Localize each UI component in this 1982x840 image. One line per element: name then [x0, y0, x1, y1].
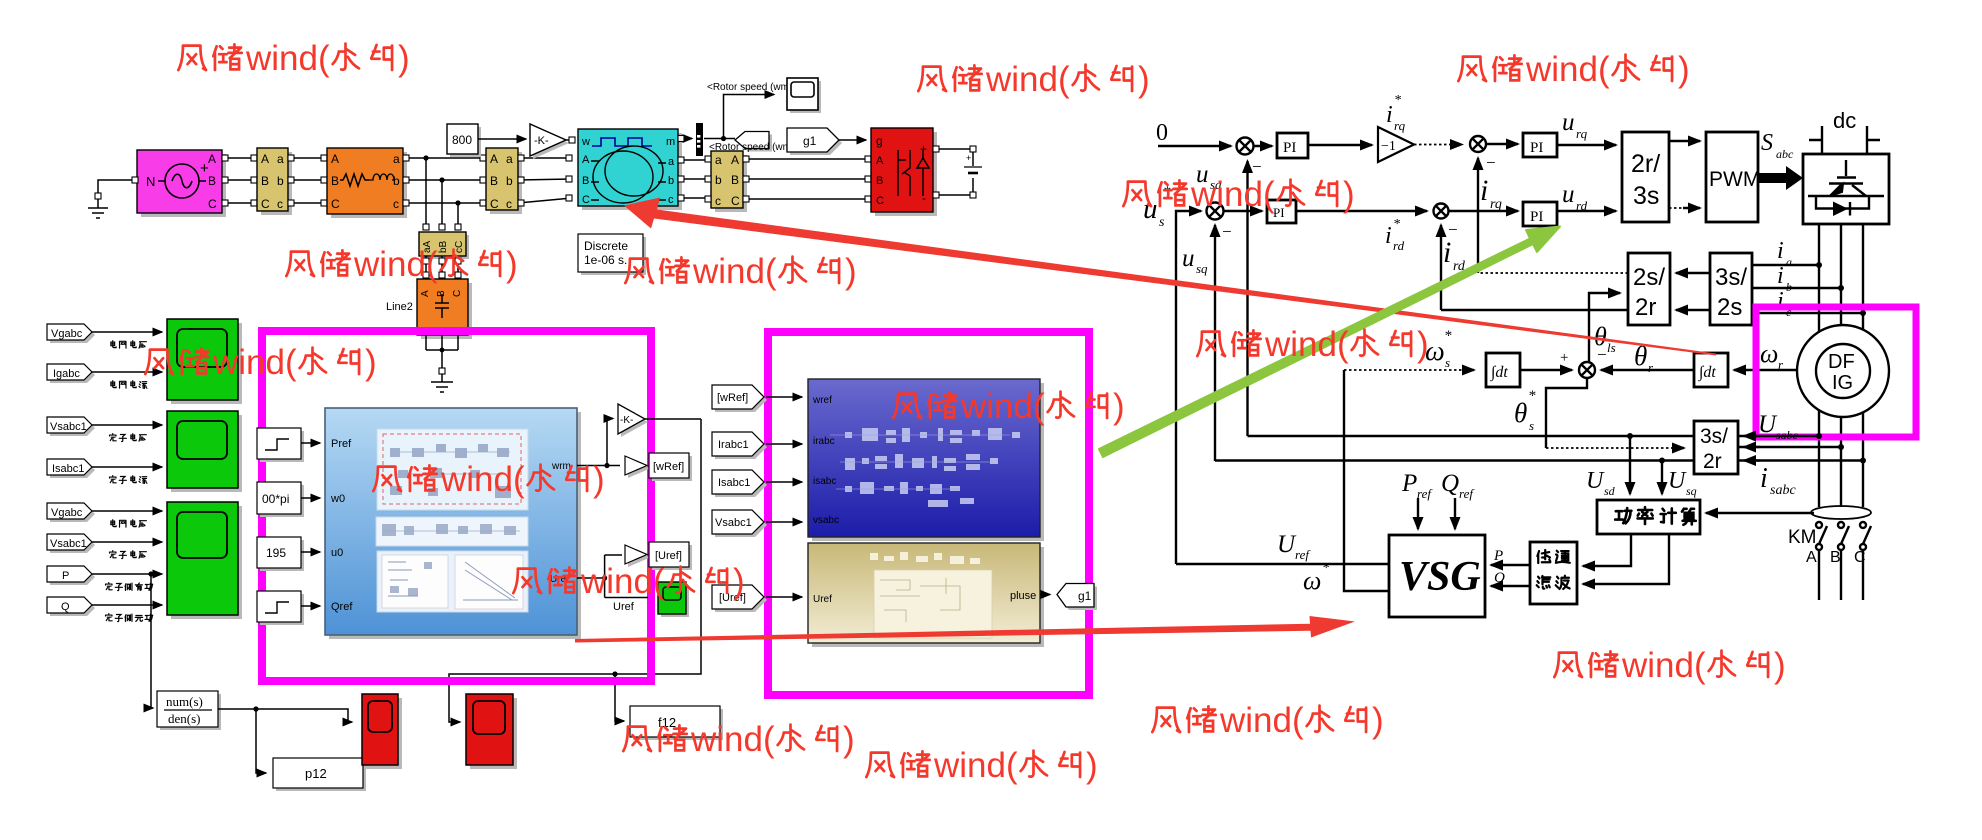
3s/2r block: [1694, 421, 1738, 474]
switch B: [1838, 522, 1844, 528]
svg-text:u0: u0: [331, 547, 343, 559]
svg-text:rq: rq: [1576, 126, 1588, 141]
three-phase VI measurement 2 (tan): [490, 152, 522, 214]
svg-text:b: b: [1786, 280, 1792, 294]
goto tag g1 out: [1060, 587, 1097, 611]
svg-text:+: +: [966, 153, 971, 163]
svg-text:s: s: [1445, 355, 1450, 370]
usq feedback line: [1215, 459, 1863, 461]
wire branch to p12: [256, 709, 266, 773]
wire sum1 to PI1: [1254, 145, 1273, 147]
wire bus selector out: [704, 138, 735, 140]
svg-text:DF: DF: [1828, 351, 1855, 373]
ground symbol G2: [431, 374, 453, 392]
constant 00*pi: [260, 485, 304, 517]
constant 195: [260, 540, 304, 571]
svg-text:wref: wref: [812, 395, 832, 406]
svg-text:B: B: [731, 173, 739, 187]
watermark 14: [866, 746, 1097, 785]
svg-text:A: A: [490, 152, 498, 166]
svg-text:b: b: [506, 174, 513, 188]
svg-text:u: u: [1562, 181, 1575, 208]
mini scope top: [790, 81, 821, 113]
subsystem preview image 2: [376, 517, 528, 546]
watermark 10: [893, 387, 1124, 426]
wires 2r3s to PWM: [1669, 140, 1700, 142]
svg-text:b: b: [715, 173, 722, 187]
PI controller 4: [1523, 202, 1557, 226]
2r/3s transform block: [1622, 132, 1669, 222]
from tag Isabc1: [715, 473, 767, 497]
svg-text:s: s: [1529, 418, 1534, 433]
DFIG magenta annotation box: [1756, 307, 1916, 437]
watermark 3: [1458, 50, 1689, 89]
svg-text:B: B: [876, 175, 883, 187]
subsystem preview image 3: [377, 551, 528, 612]
svg-text:800: 800: [452, 133, 472, 147]
three-phase VI measurement 1 (tan): [261, 152, 292, 215]
ird feedback: [1441, 309, 1628, 311]
summing junction sum1: [1237, 138, 1254, 155]
wire sum4 to PI4: [1449, 210, 1518, 212]
gain -K- top: [533, 127, 569, 159]
subsystem preview image 1: [377, 429, 528, 510]
svg-text:3s/: 3s/: [1700, 425, 1728, 448]
svg-text:∫dt: ∫dt: [1698, 364, 1716, 382]
dotted wire gain to sum2: [1414, 144, 1462, 146]
svg-text:u: u: [1562, 109, 1575, 136]
node taps to Line2: [423, 155, 428, 160]
svg-text:3s/: 3s/: [1715, 264, 1747, 291]
switch C: [1860, 522, 1866, 528]
step source Pref: [260, 431, 304, 462]
svg-text:B: B: [331, 174, 339, 188]
svg-text:2s/: 2s/: [1633, 264, 1665, 291]
wire g1 to converter: [839, 139, 866, 141]
scope1 green: [171, 323, 242, 404]
wire uref feedback to sum3: [1176, 211, 1201, 564]
wires Line2 to ground: [426, 335, 458, 368]
scope3 green: [171, 506, 242, 619]
wire up to gain2: [607, 419, 613, 466]
dotted wire omega* to int1: [1344, 369, 1472, 371]
watermark 12: [1554, 646, 1785, 685]
3s/2r arrows into right edge: [1744, 435, 1760, 437]
svg-text:A: A: [208, 152, 216, 166]
svg-text:Q: Q: [61, 601, 70, 613]
sum2 minus input irq: [1477, 158, 1479, 273]
svg-text:bB: bB: [438, 240, 449, 253]
svg-text:ref: ref: [1459, 486, 1475, 501]
svg-text:w: w: [581, 136, 590, 148]
svg-text:<Rotor speed (wm)>: <Rotor speed (wm)>: [707, 82, 798, 93]
svg-text:C: C: [331, 197, 340, 211]
switch lower rails: [1819, 550, 1863, 600]
from tag Isabc1: [50, 462, 95, 478]
svg-text:U: U: [1586, 468, 1605, 494]
PI controller 2: [1523, 133, 1557, 157]
dotted irq feedback: [1478, 272, 1628, 274]
label dingzice yougong: [106, 583, 153, 591]
svg-text:S: S: [1761, 130, 1773, 156]
svg-text:pluse: pluse: [1010, 590, 1036, 602]
svg-text:PI: PI: [1273, 205, 1285, 220]
wire sum2 to PI2: [1486, 143, 1518, 145]
wire gain2 down to bottom bus: [645, 418, 701, 420]
svg-text:ref: ref: [1417, 486, 1433, 501]
wire PI2 to 2r3s: [1557, 144, 1616, 146]
svg-text:irabc: irabc: [813, 436, 835, 447]
svg-text:Uref: Uref: [613, 601, 635, 613]
svg-text:N: N: [146, 174, 155, 189]
wire PI4 to 2r3s: [1557, 210, 1616, 212]
wire P to transfer fcn: [151, 574, 152, 708]
bus selector: [678, 138, 692, 140]
svg-text:195: 195: [266, 546, 286, 560]
svg-text:a: a: [393, 152, 400, 166]
svg-text:Q: Q: [1494, 570, 1505, 586]
DFIG machine block (cyan): [582, 133, 682, 210]
svg-text:rd: rd: [1393, 238, 1405, 253]
svg-text:Vsabc1: Vsabc1: [50, 421, 87, 433]
goto wRef: [628, 459, 650, 478]
svg-text:B: B: [582, 175, 589, 187]
from tag P: [50, 569, 95, 585]
converter block (red): [875, 132, 937, 216]
svg-text:[wRef]: [wRef]: [653, 461, 684, 473]
magenta annotation box 2: [768, 332, 1089, 695]
f12 block: [633, 709, 723, 740]
green annotation arrow: [1099, 227, 1560, 458]
svg-text:[Uref]: [Uref]: [655, 550, 682, 562]
step source Qref: [260, 594, 304, 625]
PI controller 1: [1277, 133, 1308, 158]
svg-text:C: C: [876, 195, 884, 207]
svg-text:0: 0: [1156, 120, 1168, 146]
wires RL to meas2 with taps: [403, 158, 486, 203]
ia tap: [1752, 264, 1819, 266]
green mini scope Uref: [661, 585, 689, 617]
omega* output wire: [1344, 370, 1389, 591]
watermark 5: [625, 252, 856, 291]
ib tap: [1752, 287, 1841, 289]
svg-text:Vgabc: Vgabc: [51, 507, 83, 519]
watermark 4: [286, 245, 517, 284]
svg-text:−: −: [1252, 157, 1262, 176]
wire to mini scope: [724, 95, 775, 139]
svg-text:U: U: [1758, 411, 1778, 438]
svg-text:c: c: [506, 197, 512, 211]
svg-text:IG: IG: [1832, 372, 1853, 394]
svg-text:sd: sd: [1604, 484, 1616, 498]
svg-text:Qref: Qref: [331, 601, 353, 613]
red scope2: [470, 698, 517, 769]
svg-text:2r/: 2r/: [1631, 150, 1660, 178]
svg-text:C: C: [208, 197, 217, 211]
3s/2s block: [1710, 253, 1752, 325]
Pref arrow: [1417, 498, 1419, 529]
summing junction sum4: [1434, 204, 1449, 219]
svg-text:C: C: [490, 197, 499, 211]
switch A: [1816, 522, 1822, 528]
svg-text:A: A: [331, 152, 339, 166]
svg-text:P: P: [1493, 548, 1503, 564]
from tag wRef2: [715, 388, 767, 412]
label dingzi dianliu: [110, 476, 147, 484]
svg-text:2s: 2s: [1717, 294, 1742, 321]
theta_s* output of sum5: [1546, 378, 1587, 448]
svg-text:a: a: [506, 152, 513, 166]
PI controller 3: [1267, 200, 1296, 223]
svg-text:i: i: [1777, 263, 1784, 289]
svg-text:PWM: PWM: [1709, 168, 1760, 191]
integrator 2: [1694, 353, 1728, 387]
wires meas1 to RL: [288, 158, 327, 203]
from tag Igabc: [50, 367, 95, 383]
svg-text:−1: −1: [1381, 139, 1396, 154]
thick arrow PWM to converter: [1758, 166, 1803, 190]
usq minus into sum3: [1214, 225, 1216, 461]
svg-text:A: A: [261, 152, 269, 166]
svg-text:A: A: [1806, 549, 1817, 566]
svg-text:C: C: [731, 194, 740, 208]
svg-text:i: i: [1480, 174, 1488, 207]
from tag Q: [50, 600, 95, 616]
svg-text:c: c: [393, 197, 399, 211]
from tag Irabc1: [715, 435, 767, 459]
wire sum3 to PI3: [1223, 210, 1262, 212]
wire wrm out: [577, 465, 620, 467]
svg-text:i: i: [1760, 463, 1768, 494]
svg-text:Vsabc1: Vsabc1: [50, 538, 87, 550]
watermark 1: [178, 39, 409, 78]
converter rails: [1819, 224, 1863, 507]
Qref arrow: [1454, 498, 1456, 529]
gain -K- 2: [621, 407, 648, 437]
svg-text:KM: KM: [1788, 527, 1817, 548]
svg-text:b: b: [277, 174, 284, 188]
label dingzi dianya: [110, 434, 147, 442]
svg-text:c: c: [668, 194, 674, 206]
svg-text:1e-06 s.: 1e-06 s.: [584, 253, 627, 267]
svg-text:B: B: [490, 174, 498, 188]
svg-text:a: a: [1786, 255, 1792, 269]
svg-text:PI: PI: [1530, 209, 1543, 225]
from tag Vgabc: [50, 327, 95, 343]
svg-text:Isabc1: Isabc1: [52, 463, 84, 475]
wire N to ground: [98, 180, 137, 196]
LPF block: [1530, 542, 1577, 604]
svg-text:−: −: [1486, 153, 1496, 172]
VSG block: [1389, 535, 1485, 617]
label dingzi dianya 2: [110, 551, 147, 559]
from tag Vsabc1: [50, 420, 95, 436]
svg-text:A: A: [420, 290, 431, 297]
svg-text:wrm: wrm: [551, 461, 571, 472]
constant 800: [450, 127, 481, 157]
svg-text:c: c: [277, 197, 283, 211]
svg-text:VSG: VSG: [1399, 554, 1481, 600]
svg-text:-K-: -K-: [620, 415, 633, 426]
svg-text:a: a: [668, 156, 675, 168]
DFIG machine circles: [1797, 325, 1889, 417]
wires 3s2s to 2s2r: [1676, 272, 1710, 274]
PLACE_BOTTOM: [1143, 93, 1889, 564]
Uref output wire: [1176, 563, 1389, 565]
svg-text:i: i: [1443, 236, 1451, 269]
svg-text:Isabc1: Isabc1: [718, 477, 750, 489]
svg-text:A: A: [876, 155, 884, 167]
svg-text:2r: 2r: [1703, 450, 1722, 473]
converter box: [1803, 154, 1889, 224]
wire taps down: [426, 158, 458, 226]
magenta annotation box 1: [262, 331, 651, 681]
svg-text:Discrete: Discrete: [584, 239, 628, 253]
svg-text:U: U: [1668, 468, 1687, 494]
wire branch to f12: [615, 674, 624, 721]
transfer fcn block: [160, 694, 221, 730]
summing junction sum2: [1470, 136, 1486, 152]
svg-text:sq: sq: [1686, 484, 1697, 498]
svg-text:A: A: [731, 153, 739, 167]
svg-text:+: +: [920, 142, 927, 156]
from tag Vgabc2: [50, 506, 95, 522]
svg-text:−: −: [1597, 345, 1607, 364]
usb line: [1738, 446, 1841, 448]
svg-text:*: *: [1394, 93, 1401, 108]
svg-text:a: a: [715, 153, 722, 167]
Usd drop: [1629, 436, 1631, 494]
ground symbol G1: [88, 199, 108, 218]
wire 0 to sum1: [1158, 145, 1231, 147]
p12 block: [276, 761, 366, 791]
svg-text:-: -: [922, 191, 926, 205]
svg-text:ref: ref: [1295, 547, 1311, 562]
svg-text:w0: w0: [330, 493, 345, 505]
svg-text:b: b: [668, 175, 674, 187]
svg-text:*: *: [1444, 328, 1452, 344]
summing junction sum3: [1207, 203, 1224, 220]
PWM block: [1706, 132, 1758, 222]
theta_ls into 2s2r: [1589, 293, 1620, 362]
wire PI3 to sum4: [1296, 210, 1427, 212]
from tag rotor speed: [738, 135, 772, 152]
watermark 8: [373, 460, 604, 499]
AC source block (pink): [141, 154, 226, 217]
dc link wires: [933, 149, 973, 195]
svg-text:i: i: [1777, 238, 1784, 264]
svg-text:p12: p12: [305, 766, 327, 781]
red annotation arrow to VSG: [575, 616, 1355, 643]
VSG control subsystem (blue): [329, 412, 581, 639]
svg-text:-K-: -K-: [534, 135, 549, 147]
svg-text:Irabc1: Irabc1: [718, 439, 749, 451]
svg-text:num(s): num(s): [166, 694, 203, 709]
svg-text:vsabc: vsabc: [813, 515, 839, 526]
converter IGBT art: [1808, 160, 1884, 209]
goto tag g1: [790, 131, 842, 155]
measurement subsystem (navy): [812, 383, 1044, 541]
svg-text:dc: dc: [1833, 108, 1856, 133]
svg-text:+: +: [1560, 350, 1568, 366]
CT ellipse: [1811, 506, 1871, 519]
svg-text:B: B: [261, 174, 269, 188]
wire gain to machine: [566, 139, 572, 141]
wires small tan to Line2: [426, 256, 458, 279]
pulse subsystem (gold): [812, 547, 1044, 647]
svg-text:g: g: [876, 134, 883, 148]
svg-text:i: i: [1385, 223, 1392, 249]
svg-text:u: u: [1182, 245, 1195, 272]
label dianwang dianya 2: [111, 520, 147, 527]
svg-text:m: m: [666, 136, 675, 148]
svg-text:Q: Q: [1441, 470, 1459, 497]
integrator 1: [1486, 353, 1520, 387]
bottom bus wire from gain: [449, 419, 701, 722]
wire int1 to sum5: [1520, 369, 1572, 371]
svg-text:a: a: [277, 152, 284, 166]
from tag Vsabc2: [50, 537, 95, 553]
three-phase VI measurement small (rotated tan): [422, 235, 469, 259]
svg-text:3s: 3s: [1633, 182, 1659, 210]
watermark 11: [1197, 325, 1428, 364]
svg-text:C: C: [261, 197, 270, 211]
battery: [964, 166, 982, 168]
three-phase RL branch (orange): [331, 152, 407, 218]
watermark 13: [1152, 701, 1383, 740]
svg-text:Vgabc: Vgabc: [51, 328, 83, 340]
svg-text:∫dt: ∫dt: [1490, 364, 1508, 382]
label dingzice wugong: [106, 614, 153, 622]
power calc to LPF wires: [1583, 534, 1631, 566]
svg-text:Uref: Uref: [813, 594, 832, 605]
svg-text:C: C: [452, 290, 463, 297]
Line2 block (orange): [421, 283, 472, 339]
ird minus into sum4: [1440, 225, 1442, 310]
svg-text:i: i: [1386, 102, 1393, 128]
Discrete block: [581, 237, 646, 275]
wire 800 to gain: [478, 138, 526, 140]
goto Uref: [577, 555, 648, 598]
svg-text:*: *: [1393, 217, 1400, 232]
usd feedback line: [1248, 435, 1820, 437]
from tag Vsabc1b: [715, 513, 767, 537]
svg-text:isabc: isabc: [813, 476, 836, 487]
svg-text:−: −: [1222, 222, 1232, 241]
wire tf out: [218, 709, 352, 722]
svg-text:θ: θ: [1514, 398, 1527, 428]
wires pink to meas1: [222, 158, 257, 203]
wire DFIG to int2: [1734, 369, 1797, 371]
svg-text:C: C: [1854, 549, 1866, 566]
svg-text:P: P: [62, 570, 69, 582]
watermark 15: [623, 720, 854, 759]
wire int2 to sum5: [1601, 369, 1694, 371]
svg-text:B: B: [208, 174, 216, 188]
wire CT to power calc: [1706, 512, 1814, 514]
svg-text:rq: rq: [1490, 197, 1502, 212]
wire PI1 to gain-1: [1308, 144, 1372, 146]
LPF to VSG wires: [1491, 564, 1530, 566]
watermark 9: [513, 562, 744, 601]
label dianwang dianya: [111, 341, 147, 348]
svg-text:*: *: [1528, 388, 1536, 404]
red scope1: [366, 698, 402, 769]
wires meas2 to DFIG machine: [518, 158, 572, 203]
ic tap: [1752, 312, 1863, 314]
watermark 7: [145, 343, 376, 382]
svg-text:*: *: [1322, 561, 1329, 576]
